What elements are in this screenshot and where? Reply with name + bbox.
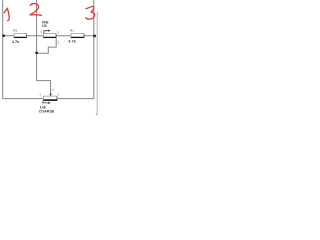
wire net 3 right vertical xyxy=(93,0,95,99)
svg-text:2: 2 xyxy=(52,87,54,91)
wire net 1 left vertical xyxy=(2,0,4,99)
sheet border line right xyxy=(96,12,98,114)
svg-text:4.7k: 4.7k xyxy=(12,40,19,44)
svg-text:47K: 47K xyxy=(42,24,48,28)
svg-text:3: 3 xyxy=(57,30,59,34)
potentiometer COARSE body xyxy=(43,96,57,104)
potentiometer COARSE wiper arrowhead xyxy=(49,94,51,97)
wire fine wiper xyxy=(37,38,57,54)
red annotation numeral 2 xyxy=(30,4,42,16)
resistor R1 xyxy=(71,34,84,38)
wire top horizontal xyxy=(3,35,94,37)
svg-text:COARSE: COARSE xyxy=(39,109,56,113)
wire jog to coarse wiper xyxy=(37,81,51,94)
wire net 2 middle vertical xyxy=(36,0,38,81)
node junction dot left xyxy=(2,34,5,37)
svg-text:1: 1 xyxy=(41,31,43,34)
red annotation numeral 3 xyxy=(86,6,95,19)
wire bottom horizontal xyxy=(3,98,94,100)
svg-text:2: 2 xyxy=(58,40,60,44)
potentiometer FINE body xyxy=(43,30,56,38)
svg-text:3: 3 xyxy=(58,94,60,97)
red annotation numeral 1 xyxy=(4,8,9,21)
svg-text:4.7k: 4.7k xyxy=(68,40,75,44)
border line end tick xyxy=(96,113,98,115)
resistor R2 xyxy=(14,34,27,38)
node junction dot middle xyxy=(35,51,38,54)
svg-text:1: 1 xyxy=(39,94,41,97)
svg-text:R2: R2 xyxy=(13,29,17,33)
svg-text:R1: R1 xyxy=(70,28,74,32)
node junction dot right xyxy=(93,35,96,38)
